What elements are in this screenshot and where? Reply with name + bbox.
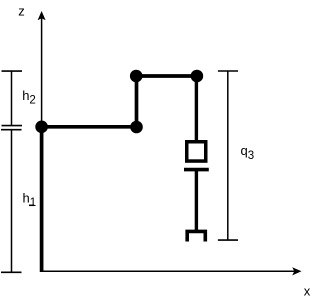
dimension q3 line: [218, 71, 238, 240]
link 2 (lower horizontal link): [42, 125, 137, 129]
prismatic rod upper segment: [195, 76, 198, 141]
link 3 (vertical link between joints): [135, 76, 139, 127]
joint node 3: [130, 70, 143, 83]
slider bar below box: [184, 168, 209, 172]
z-axis: [38, 11, 46, 271]
dimension h1 line: [1, 130, 22, 273]
svg-text:x: x: [304, 284, 311, 299]
prismatic joint box: [187, 142, 206, 161]
dimension h2 line: [2, 71, 23, 126]
link 1 (base vertical link): [40, 127, 44, 272]
label h1 subscript foot serif: [29, 204, 34, 206]
prismatic rod lower segment: [195, 170, 198, 232]
joint node 1: [35, 121, 48, 134]
svg-text:z: z: [18, 4, 25, 19]
link 4 (upper horizontal link): [136, 74, 197, 78]
end-effector bracket: [187, 231, 205, 241]
joint node 4: [191, 70, 204, 83]
x-axis: [42, 267, 302, 275]
joint node 2: [130, 121, 143, 134]
